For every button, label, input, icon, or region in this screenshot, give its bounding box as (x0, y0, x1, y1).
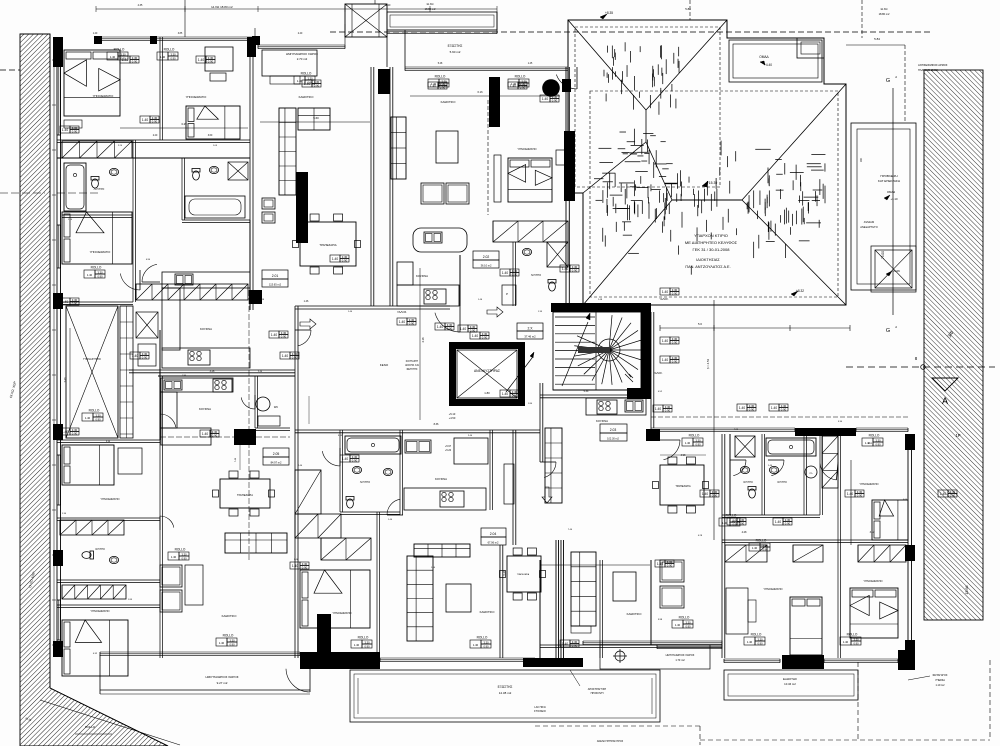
svg-text:ROLLO: ROLLO (726, 514, 737, 518)
svg-text:37.46 m2: 37.46 m2 (524, 335, 536, 339)
svg-text:1.40: 1.40 (93, 33, 98, 35)
svg-text:1.40: 1.40 (662, 358, 668, 362)
svg-text:1.40: 1.40 (502, 271, 508, 275)
svg-text:WC: WC (274, 405, 278, 409)
svg-text:2.40: 2.40 (298, 33, 303, 35)
svg-text:1.80: 1.80 (484, 391, 490, 395)
svg-text:1.40: 1.40 (685, 441, 691, 445)
svg-text:3.12: 3.12 (870, 531, 875, 534)
svg-text:0.90: 0.90 (440, 86, 446, 90)
svg-text:0.90: 0.90 (208, 60, 214, 64)
svg-text:G: G (886, 328, 890, 334)
svg-text:0.90: 0.90 (482, 336, 488, 340)
svg-text:0.90: 0.90 (781, 408, 787, 412)
svg-text:5.84: 5.84 (874, 37, 880, 41)
svg-text:+5.97: +5.97 (445, 445, 452, 448)
svg-text:ΟΙΚ: ΟΙΚ (860, 158, 863, 163)
svg-text:1.40: 1.40 (662, 290, 668, 294)
svg-text:1.40: 1.40 (354, 643, 360, 647)
svg-text:ΑΝΤΙΣΕΙΣΜΙΚΟΣ ΑΡΜΟΣ: ΑΝΤΙΣΕΙΣΜΙΚΟΣ ΑΡΜΟΣ (918, 63, 948, 67)
svg-text:3.98: 3.98 (681, 454, 686, 457)
svg-text:ΦΕΓΓΙΤΗΣ: ΦΕΓΓΙΤΗΣ (406, 368, 418, 371)
svg-text:1.40: 1.40 (739, 406, 745, 410)
svg-text:1.40: 1.40 (342, 457, 348, 461)
svg-text:ΠΑΝ. ΑΝΤΖΟΥΛΑΤΟΣ Α.Ε.: ΠΑΝ. ΑΝΤΖΟΥΛΑΤΟΣ Α.Ε. (685, 265, 730, 269)
svg-text:0.90: 0.90 (314, 84, 320, 88)
svg-text:ΠΛΑΤΟΥΣ 15 ΕΚ.: ΠΛΑΤΟΥΣ 15 ΕΚ. (918, 68, 939, 72)
svg-text:1.40: 1.40 (473, 643, 479, 647)
svg-text:1.40: 1.40 (702, 492, 708, 496)
svg-text:+5.13: +5.13 (449, 412, 456, 416)
svg-text:ΥΠΝΟΔΩΜΑΤΙΟ: ΥΠΝΟΔΩΜΑΤΙΟ (859, 482, 878, 486)
svg-text:2.Χ: 2.Χ (527, 327, 533, 331)
svg-text:ΚΑΘΙΣΤΙΚΟ: ΚΑΘΙΣΤΙΚΟ (222, 614, 238, 618)
svg-text:0.90: 0.90 (142, 356, 148, 360)
svg-text:1.40: 1.40 (502, 392, 508, 396)
svg-text:0.90: 0.90 (739, 522, 745, 526)
svg-text:ROLLO: ROLLO (477, 636, 488, 640)
svg-text:1.40: 1.40 (752, 546, 758, 550)
svg-text:ROLLO: ROLLO (515, 75, 526, 79)
svg-text:ΟΜΑΔ: ΟΜΑΔ (759, 55, 769, 59)
svg-text:0.90: 0.90 (665, 409, 671, 413)
svg-text:0.90: 0.90 (757, 641, 763, 645)
svg-text:ΛΟΥΤΡΟ: ΛΟΥΤΡΟ (94, 187, 105, 191)
svg-text:ΚΟΥΖΙΝΑ: ΚΟΥΖΙΝΑ (416, 274, 428, 278)
svg-text:0.90: 0.90 (470, 329, 476, 333)
svg-text:0.90: 0.90 (512, 394, 518, 398)
svg-text:ΜΕ ΔΙΑΤΗΡΗΤΕΟ ΚΕΛΥΦΟΣ: ΜΕ ΔΙΑΤΗΡΗΤΕΟ ΚΕΛΥΦΟΣ (685, 240, 738, 245)
svg-text:1.40: 1.40 (219, 641, 225, 645)
svg-text:ΛΟΥΤΡΟ: ΛΟΥΤΡΟ (95, 548, 105, 551)
svg-text:0.90: 0.90 (762, 547, 768, 551)
svg-text:1.40: 1.40 (562, 642, 568, 646)
svg-text:1.40: 1.40 (460, 327, 466, 331)
svg-text:9.27 m2: 9.27 m2 (217, 681, 228, 685)
svg-text:1.40: 1.40 (940, 492, 946, 496)
svg-text:0.90: 0.90 (520, 86, 526, 90)
svg-text:1.40: 1.40 (160, 55, 166, 59)
svg-text:3.85: 3.85 (178, 33, 183, 35)
svg-text:ΤΡΑΠΕΖΑΡΙΑ: ΤΡΑΠΕΖΑΡΙΑ (237, 493, 253, 497)
svg-text:1.40: 1.40 (843, 640, 849, 644)
svg-text:G: G (886, 78, 890, 84)
svg-text:1.45: 1.45 (528, 63, 533, 65)
svg-text:+4.50: +4.50 (449, 416, 456, 420)
svg-text:0.90: 0.90 (95, 417, 101, 421)
svg-text:1.40: 1.40 (847, 492, 853, 496)
svg-text:1.40: 1.40 (171, 555, 177, 559)
svg-text:0.90: 0.90 (364, 644, 370, 648)
svg-text:6.16: 6.16 (477, 90, 483, 94)
svg-text:ΠΡΟΒΛΕΨΗ: ΠΡΟΒΛΕΨΗ (880, 174, 897, 178)
svg-text:2.04: 2.04 (490, 532, 497, 536)
svg-text:ΟΜΑΔ: ΟΜΑΔ (887, 190, 895, 194)
svg-text:ΚΟΥΠΑΣΤΗ: ΚΟΥΠΑΣΤΗ (406, 360, 419, 363)
svg-text:5.60: 5.60 (313, 116, 319, 120)
svg-text:0.90: 0.90 (712, 494, 718, 498)
svg-text:0.90: 0.90 (342, 259, 348, 263)
svg-text:0.90: 0.90 (352, 459, 358, 463)
svg-text:ΠΛ: ΠΛ (809, 473, 813, 475)
svg-text:ΗΜΙΥΠΑΙΘΡΙΟΣ ΧΩΡΟΣ: ΗΜΙΥΠΑΙΘΡΙΟΣ ΧΩΡΟΣ (666, 653, 695, 657)
svg-text:ΕΞΩΣΤΗΣ: ΕΞΩΣΤΗΣ (498, 685, 513, 689)
svg-text:ΑΨΙΔΑΚΙ: ΑΨΙΔΑΚΙ (864, 220, 875, 224)
svg-text:0.90: 0.90 (132, 60, 138, 64)
svg-text:1.40: 1.40 (729, 520, 735, 524)
svg-text:ΗΜΙΥΠΑΙΘΡΙΟΣ ΧΩΡΟΣ: ΗΜΙΥΠΑΙΘΡΙΟΣ ΧΩΡΟΣ (205, 675, 238, 679)
svg-text:0.90: 0.90 (875, 442, 881, 446)
svg-text:5.34: 5.34 (584, 390, 589, 393)
svg-text:ΣΤΟΙΧΕΙΟ: ΣΤΟΙΧΕΙΟ (534, 710, 546, 713)
svg-text:14.38 m2: 14.38 m2 (499, 691, 512, 695)
svg-text:0.90: 0.90 (97, 274, 103, 278)
svg-text:0.90: 0.90 (170, 56, 176, 60)
svg-text:8.36: 8.36 (434, 423, 439, 426)
svg-text:5.6: 5.6 (698, 322, 702, 326)
svg-text:ΠΡΟΣΟΨΗ: ΠΡΟΣΟΨΗ (591, 692, 604, 695)
svg-text:ΕΞΩΣΤΗΣ: ΕΞΩΣΤΗΣ (448, 44, 463, 48)
svg-text:ΙΔ.ΧΩ 18.80 m2: ΙΔ.ΧΩ 18.80 m2 (211, 5, 233, 9)
svg-text:1.73 m2: 1.73 m2 (675, 658, 685, 662)
svg-text:0.90: 0.90 (72, 302, 78, 306)
svg-text:4.16: 4.16 (421, 337, 425, 343)
svg-text:1.40: 1.40 (62, 430, 68, 434)
svg-text:+5.20: +5.20 (445, 449, 452, 452)
svg-text:1.40: 1.40 (775, 520, 781, 524)
svg-text:ΑΝΕΛΚΥΣΤΗΡΑΣ ΠΡΟΣ: ΑΝΕΛΚΥΣΤΗΡΑΣ ΠΡΟΣ (597, 740, 624, 743)
svg-text:2.01: 2.01 (272, 274, 279, 278)
svg-text:3.29: 3.29 (181, 122, 187, 126)
svg-text:1.40: 1.40 (510, 84, 516, 88)
svg-text:0.90: 0.90 (572, 269, 578, 273)
svg-text:ΥΑΛΟΣ.: ΥΑΛΟΣ. (653, 371, 663, 375)
svg-text:LAV ΠΙΣΩ: LAV ΠΙΣΩ (534, 706, 545, 709)
svg-text:1.40: 1.40 (62, 128, 68, 132)
svg-text:ΤΡΑΠΕΖΑΡΙΑ: ΤΡΑΠΕΖΑΡΙΑ (319, 243, 336, 247)
svg-text:15.66: 15.66 (965, 586, 969, 595)
svg-text:ΚΑΤ ΕΠΕΚΤΑΣΗ: ΚΑΤ ΕΠΕΚΤΑΣΗ (878, 179, 900, 183)
svg-text:1.40: 1.40 (675, 623, 681, 627)
svg-text:ΥΑΛΟΣ.: ΥΑΛΟΣ. (659, 297, 669, 301)
svg-text:0.90: 0.90 (281, 335, 287, 339)
svg-text:3.28: 3.28 (210, 370, 215, 373)
svg-text:1.40: 1.40 (304, 82, 310, 86)
svg-text:Ρ: Ρ (506, 292, 508, 296)
svg-text:ROLLO: ROLLO (751, 633, 762, 637)
svg-text:ΚΑΘΙΣΤΙΚΟ: ΚΑΘΙΣΤΙΚΟ (441, 100, 457, 104)
svg-text:ΙΔ.ΧΩ: ΙΔ.ΧΩ (881, 7, 888, 11)
svg-text:ΥΠΝΟΔΩΜΑΤΙΟ: ΥΠΝΟΔΩΜΑΤΙΟ (90, 609, 109, 613)
svg-text:ΕΞΩΣΤΗΣ: ΕΞΩΣΤΗΣ (783, 677, 797, 681)
svg-text:5.48: 5.48 (438, 63, 443, 65)
svg-text:0.90: 0.90 (512, 273, 518, 277)
svg-text:3.60: 3.60 (208, 135, 213, 137)
svg-text:ΚΟΥΖΙΝΑ: ΚΟΥΖΙΝΑ (435, 477, 447, 481)
svg-text:1.40: 1.40 (657, 562, 663, 566)
svg-text:ROLLO: ROLLO (85, 725, 96, 729)
svg-text:ΥΠΝΟΔΩΜΑΤΙΟ: ΥΠΝΟΔΩΜΑΤΙΟ (93, 94, 114, 98)
svg-text:ROLLO: ROLLO (689, 434, 700, 438)
svg-text:0.90: 0.90 (667, 564, 673, 568)
svg-text:ΥΠΝΟΔΩΜΑΤΙΟ: ΥΠΝΟΔΩΜΑΤΙΟ (517, 147, 536, 151)
svg-text:1.40: 1.40 (399, 320, 405, 324)
svg-text:113.65 m2: 113.65 m2 (269, 283, 282, 287)
svg-text:ΚΑΘΙΣΤΙΚΟ: ΚΑΘΙΣΤΙΚΟ (627, 612, 643, 616)
svg-text:ΗΜΙΥΠΑΙΘΡΙΟΣ ΧΩΡΟΣ: ΗΜΙΥΠΑΙΘΡΙΟΣ ΧΩΡΟΣ (286, 52, 318, 56)
svg-text:ΑΝΕΛΚΥΣΤΗΡΑΣ: ΑΝΕΛΚΥΣΤΗΡΑΣ (474, 369, 500, 373)
svg-text:ΥΠΕΡΔΑ: ΥΠΕΡΔΑ (935, 679, 945, 682)
svg-text:ΥΠΝΟΔΩΜΑΤΙΟ: ΥΠΝΟΔΩΜΑΤΙΟ (332, 611, 351, 615)
svg-text:1.40: 1.40 (110, 55, 116, 59)
svg-text:ΓΥΜΝΑΣΤΗΡΙΟ: ΓΥΜΝΑΣΤΗΡΙΟ (83, 358, 101, 361)
svg-text:ROLLO: ROLLO (869, 434, 880, 438)
svg-text:0.90: 0.90 (950, 494, 956, 498)
svg-text:2.03: 2.03 (610, 428, 617, 432)
svg-text:ΚΟΥΖΙΝΑ: ΚΟΥΖΙΝΑ (199, 407, 211, 411)
svg-text:ROLLO: ROLLO (175, 548, 186, 552)
svg-text:2.05: 2.05 (273, 452, 280, 456)
svg-text:2.20: 2.20 (386, 4, 391, 7)
svg-text:ΙΔΙΟΚΤΗΣΙΑΣ: ΙΔΙΟΚΤΗΣΙΑΣ (696, 258, 720, 262)
svg-text:ROLLO: ROLLO (301, 72, 312, 76)
svg-text:0.90: 0.90 (785, 522, 791, 526)
svg-text:1.40: 1.40 (282, 354, 288, 358)
svg-text:1.46: 1.46 (304, 300, 309, 303)
svg-text:5.13: 5.13 (503, 570, 506, 575)
svg-text:0.90: 0.90 (672, 360, 678, 364)
svg-text:0.90: 0.90 (152, 120, 158, 124)
svg-text:1.40: 1.40 (562, 267, 568, 271)
svg-text:ΥΠΝΟΔΩΜΑΤΙΟ: ΥΠΝΟΔΩΜΑΤΙΟ (763, 587, 782, 591)
svg-text:1.40: 1.40 (142, 118, 148, 122)
svg-text:ΓΕΚ 31 / 30-01-2008: ΓΕΚ 31 / 30-01-2008 (693, 247, 731, 252)
svg-text:ΛΟΥΤΡΟ: ΛΟΥΤΡΟ (531, 274, 541, 277)
svg-text:1.40: 1.40 (132, 354, 138, 358)
svg-text:ROLLO: ROLLO (114, 48, 125, 52)
svg-text:ROLLO: ROLLO (756, 539, 767, 543)
svg-text:1.40: 1.40 (62, 300, 68, 304)
svg-text:ΚΕΝΟ: ΚΕΝΟ (380, 363, 389, 367)
svg-text:1.40: 1.40 (292, 564, 298, 568)
svg-text:1.40: 1.40 (771, 406, 777, 410)
svg-text:ΙΔ.ΧΩ: ΙΔ.ΧΩ (427, 2, 434, 6)
svg-text:ΥΑΛΟΣ.: ΥΑΛΟΣ. (397, 310, 407, 314)
svg-text:3.40: 3.40 (64, 377, 67, 382)
svg-text:36.10 m2: 36.10 m2 (481, 264, 492, 268)
svg-text:ROLLO: ROLLO (435, 75, 446, 79)
svg-text:ΛΟΥΤΡΟ: ΛΟΥΤΡΟ (777, 481, 787, 484)
svg-text:0.90: 0.90 (572, 644, 578, 648)
svg-text:ΦΩΤΑΓΩΓΟΣ: ΦΩΤΑΓΩΓΟΣ (933, 674, 948, 677)
svg-text:0.90: 0.90 (181, 556, 187, 560)
svg-text:4.35: 4.35 (138, 4, 143, 7)
svg-text:ΥΠΝΟΔΩΜΑΤΙΟ: ΥΠΝΟΔΩΜΑΤΙΟ (186, 95, 207, 99)
svg-text:ROLLO: ROLLO (91, 266, 102, 270)
svg-text:0.90: 0.90 (672, 292, 678, 296)
svg-text:2.70 m2: 2.70 m2 (297, 57, 308, 61)
svg-text:5.60 m2: 5.60 m2 (450, 50, 461, 54)
svg-text:ΑΝΟΙΓΜ. ΚΑΙ: ΑΝΟΙΓΜ. ΚΑΙ (405, 364, 419, 367)
svg-text:ROLLO: ROLLO (223, 634, 234, 638)
svg-text:0.90: 0.90 (672, 341, 678, 345)
svg-text:ΥΠΝΟΔΩΜΑΤΙΟ: ΥΠΝΟΔΩΜΑΤΙΟ (100, 497, 119, 501)
svg-text:1.40: 1.40 (430, 84, 436, 88)
svg-text:1.40: 1.40 (87, 273, 93, 277)
svg-text:0.90: 0.90 (483, 644, 489, 648)
svg-text:0.90: 0.90 (302, 566, 308, 570)
svg-text:0.90: 0.90 (72, 130, 78, 134)
svg-text:0.90: 0.90 (853, 641, 859, 645)
svg-text:ΑΝΕΞΑΡΤΗΤΟ: ΑΝΕΞΑΡΤΗΤΟ (860, 225, 878, 229)
svg-text:ΛΟΥΤΡΟ: ΛΟΥΤΡΟ (743, 481, 753, 484)
svg-text:ROLLO: ROLLO (679, 616, 690, 620)
svg-text:0.90: 0.90 (409, 322, 415, 326)
svg-text:ΚΑΘΙΣΤΙΚΟ: ΚΑΘΙΣΤΙΚΟ (299, 95, 315, 99)
svg-text:102.30 m2: 102.30 m2 (607, 438, 619, 441)
svg-text:A: A (942, 396, 948, 406)
svg-text:ROLLO: ROLLO (164, 48, 175, 52)
svg-text:1.40: 1.40 (437, 325, 443, 329)
svg-text:0.90: 0.90 (72, 432, 78, 436)
svg-text:18.80 m2: 18.80 m2 (879, 12, 890, 16)
svg-text:ΑΠΟΣΤΡΑΓΓΙΣΗ: ΑΠΟΣΤΡΑΓΓΙΣΗ (588, 688, 607, 691)
svg-text:0.90: 0.90 (749, 408, 755, 412)
svg-text:0.90: 0.90 (292, 356, 298, 360)
svg-text:ΚΟΥΖΙΝΑ: ΚΟΥΖΙΝΑ (200, 327, 212, 331)
svg-text:0.90: 0.90 (229, 642, 235, 646)
svg-text:ΤΡΑΠΕΖΑΡΙΑ: ΤΡΑΠΕΖΑΡΙΑ (517, 573, 530, 576)
svg-text:ΚΑΘΙΣΤΙΚΟ: ΚΑΘΙΣΤΙΚΟ (480, 610, 496, 614)
svg-text:β = 4.53: β = 4.53 (706, 358, 710, 369)
svg-text:+5.06: +5.06 (892, 269, 900, 273)
svg-text:1.40: 1.40 (85, 416, 91, 420)
svg-text:0.90: 0.90 (685, 624, 691, 628)
svg-text:4.28: 4.28 (742, 531, 747, 534)
svg-text:75.00: 75.00 (881, 251, 885, 259)
svg-text:ΛΟΥΤΡΟ: ΛΟΥΤΡΟ (360, 481, 370, 484)
svg-text:ΥΠΝΟΔΩΜΑΤΙΟ: ΥΠΝΟΔΩΜΑΤΙΟ (863, 579, 882, 583)
svg-text:2.02: 2.02 (483, 255, 490, 259)
svg-text:1.40: 1.40 (747, 640, 753, 644)
svg-text:84.97 m2: 84.97 m2 (271, 461, 282, 465)
svg-text:ΥΠΝΟΔΩΜΑΤΙΟ: ΥΠΝΟΔΩΜΑΤΙΟ (90, 250, 111, 254)
svg-text:0.90: 0.90 (857, 494, 863, 498)
svg-text:1.40: 1.40 (662, 339, 668, 343)
svg-text:10.46 m2: 10.46 m2 (784, 682, 796, 686)
svg-text:0.90: 0.90 (552, 99, 558, 103)
svg-text:ΚΟΥΖΙΝΑ: ΚΟΥΖΙΝΑ (596, 419, 608, 423)
svg-text:1.40: 1.40 (198, 58, 204, 62)
svg-text:0.90: 0.90 (695, 442, 701, 446)
svg-text:67.06 m2: 67.06 m2 (488, 541, 499, 545)
svg-text:ROLLO: ROLLO (847, 633, 858, 637)
svg-text:ROLLO: ROLLO (358, 636, 369, 640)
svg-text:+1.10: +1.10 (890, 197, 898, 201)
svg-text:+8.32: +8.32 (796, 289, 804, 293)
svg-text:1Ρ: 1Ρ (955, 433, 960, 438)
svg-text:1.40: 1.40 (332, 257, 338, 261)
svg-text:1.40: 1.40 (655, 407, 661, 411)
svg-text:1.40: 1.40 (472, 334, 478, 338)
svg-text:2.20: 2.20 (153, 135, 158, 137)
svg-text:1.40: 1.40 (271, 333, 277, 337)
svg-text:1.40: 1.40 (542, 97, 548, 101)
svg-text:1.40: 1.40 (202, 432, 208, 436)
svg-text:ROLLO: ROLLO (89, 409, 100, 413)
svg-text:1.19 m2: 1.19 m2 (935, 684, 945, 687)
svg-text:1.40: 1.40 (122, 58, 128, 62)
svg-text:ΤΡΑΠΕΖΑΡΙΑ: ΤΡΑΠΕΖΑΡΙΑ (675, 485, 691, 488)
